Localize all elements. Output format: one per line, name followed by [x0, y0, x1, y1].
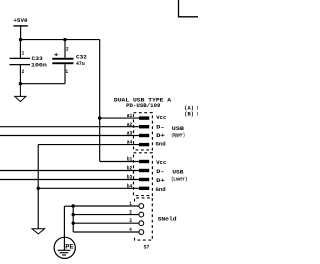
svg-text:PD-USB/109: PD-USB/109: [126, 103, 160, 109]
pin stub a4: [139, 143, 149, 146]
wire a2 D-: [0, 126, 139, 128]
wire gnd vertical: [37, 145, 39, 229]
svg-text:USB: USB: [172, 170, 183, 176]
svg-text:a1: a1: [127, 113, 133, 119]
svg-text:PE: PE: [65, 243, 73, 250]
node shield s3 dot: [72, 222, 75, 225]
wire shield 1: [73, 205, 139, 207]
wire a3 D+: [0, 135, 139, 137]
pin stub a1: [139, 116, 149, 119]
pin stub b2: [139, 169, 149, 172]
shield pin circle 3: [139, 221, 144, 226]
svg-text:2: 2: [129, 210, 132, 216]
svg-text:SNeld: SNeld: [158, 216, 177, 222]
svg-text:S7: S7: [144, 244, 150, 251]
svg-text:100n: 100n: [31, 63, 47, 69]
shield pin circle 2: [139, 212, 144, 217]
node gnd rail junction dot: [19, 82, 22, 85]
capacitor C32 (polarized): [64, 40, 66, 84]
svg-text:a3: a3: [127, 131, 133, 137]
svg-text:1: 1: [22, 50, 25, 56]
wire shield 4: [73, 231, 139, 233]
capacitor C33: [10, 40, 31, 84]
svg-text:1: 1: [129, 201, 132, 207]
wire a4 Gnd: [38, 144, 139, 146]
node shield s1 dot: [72, 204, 75, 207]
svg-text:Vcc: Vcc: [156, 160, 166, 166]
node a1 junction dot: [98, 116, 101, 119]
svg-text:(Upper): (Upper): [171, 133, 185, 139]
wire b2 D-: [0, 170, 139, 172]
svg-text:USB: USB: [172, 126, 184, 132]
pin stub a2: [139, 125, 149, 128]
svg-text:D–: D–: [156, 169, 164, 175]
frame box corner top right: [179, 0, 199, 17]
svg-text:D–: D–: [156, 124, 164, 130]
svg-text:D+: D+: [156, 133, 165, 139]
shield pin circle 1: [139, 204, 144, 209]
svg-text:D+: D+: [156, 178, 165, 184]
svg-text:b1: b1: [127, 157, 133, 163]
connector X lower USB dashed box: [134, 153, 153, 196]
svg-text:(B) P: (B) P: [184, 111, 198, 117]
pin stub a3: [139, 134, 149, 137]
pin stub b4: [139, 187, 149, 190]
node shield s2 dot: [72, 213, 75, 216]
earth PE symbol: [54, 237, 75, 258]
svg-text:47u: 47u: [76, 61, 85, 67]
svg-text:Vcc: Vcc: [156, 115, 166, 121]
svg-text:Gnd: Gnd: [156, 142, 166, 148]
wire cap ground rail: [20, 83, 65, 85]
wire b1 Vcc: [100, 161, 139, 163]
pin stub b3: [139, 178, 149, 181]
wire shield riser: [64, 206, 73, 237]
ground symbol 2: [32, 229, 45, 234]
wire b3 D+: [0, 179, 139, 181]
svg-text:Gnd: Gnd: [156, 187, 166, 193]
wire shield 3: [73, 222, 139, 224]
svg-text:b3: b3: [127, 175, 133, 181]
wire shield 2: [73, 214, 139, 216]
svg-text:b2: b2: [127, 166, 133, 172]
svg-text:C32: C32: [76, 55, 87, 61]
connector shield dashed box: [135, 198, 153, 240]
pin stub b1: [139, 160, 149, 163]
power +5V0: [13, 26, 27, 40]
wire a1 Vcc: [100, 117, 139, 119]
wire +5V horizontal: [21, 39, 100, 41]
node b4 junction dot: [37, 187, 40, 190]
shield pin circle 4: [139, 230, 144, 235]
svg-text:2: 2: [66, 46, 69, 52]
svg-text:+5V0: +5V0: [13, 17, 28, 24]
node +5V junction dot: [19, 38, 22, 41]
svg-text:C33: C33: [32, 56, 43, 62]
svg-text:1: 1: [66, 69, 69, 75]
node C32 tap dot: [63, 38, 66, 41]
wire b4 Gnd: [38, 187, 139, 189]
svg-text:3: 3: [129, 218, 132, 224]
svg-text:b4: b4: [127, 183, 133, 189]
svg-text:(Lower): (Lower): [171, 177, 187, 183]
ground symbol 1: [15, 84, 26, 102]
svg-text:a4: a4: [127, 140, 133, 146]
connector X upper USB dashed box: [134, 113, 153, 150]
wire +5V vertical bus: [99, 40, 101, 162]
svg-text:2: 2: [22, 69, 25, 75]
svg-text:4: 4: [129, 227, 132, 233]
svg-text:a2: a2: [127, 122, 133, 128]
